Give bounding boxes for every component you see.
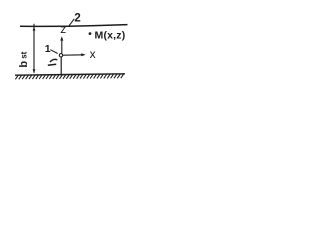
wire: drop line from conductor 1 to ground — [60, 57, 62, 74]
node b_st label (rotated) — [18, 51, 30, 67]
svg-text:1: 1 — [45, 43, 51, 55]
svg-text:M(x,z): M(x,z) — [95, 29, 126, 41]
node M point — [89, 32, 92, 35]
svg-text:z: z — [60, 22, 66, 36]
svg-text:st: st — [20, 51, 29, 58]
svg-text:x: x — [90, 47, 96, 61]
ground (hatched earth line) — [15, 74, 125, 75]
svg-text:b: b — [18, 61, 30, 68]
wire: z axis — [61, 38, 63, 53]
svg-text:2: 2 — [74, 12, 80, 24]
wire: boundary line 2 (top horizontal line) — [20, 25, 128, 27]
wire: x axis — [63, 54, 83, 56]
wire: leader to label 2 — [69, 19, 74, 26]
wire: leader from 1 to conductor — [50, 50, 57, 54]
conductor 1 (origin circle) — [59, 54, 62, 57]
wire: dimension line b_st (vertical with arrows) — [33, 24, 35, 73]
node h label (script letter with underline) — [50, 59, 57, 62]
